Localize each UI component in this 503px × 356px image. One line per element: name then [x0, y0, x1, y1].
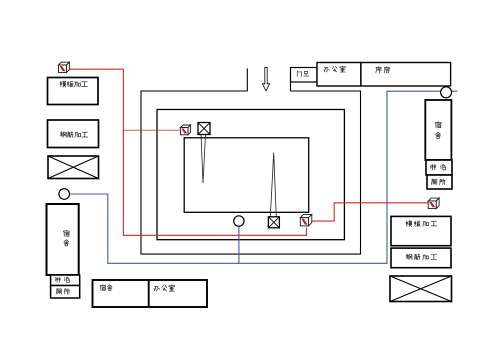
blue water pipe: tap C branch: [238, 226, 240, 263]
middle fence rectangle: [157, 110, 344, 240]
gatehouse wall to boundary: [290, 82, 292, 91]
box: gatehouse (门卫): [291, 68, 318, 83]
label 宿舍 vertical (left): [64, 230, 70, 246]
distribution box DB0 (top-left): [59, 62, 70, 72]
label 办公室 (top): [324, 66, 345, 72]
label 厕所 (left): [56, 289, 70, 294]
outer site boundary wall (gap = gate at top): [141, 68, 361, 254]
box: dormitory tall (left 宿舍): [47, 204, 79, 275]
distribution box DB1 (site, near crane 1): [180, 125, 190, 135]
label 淋浴 (right): [430, 164, 445, 169]
box: dorm/office block (bottom 宿舍/办公室): [93, 280, 208, 307]
water tap C (site circle): [234, 216, 244, 226]
tower crane 1 base symbol: [198, 123, 210, 135]
box: rebar shed (left 钢筋加工): [48, 120, 99, 148]
tower crane 1 mast: [201, 135, 206, 184]
crossed stockyard box (bottom-right): [390, 276, 452, 302]
box: shower (right 淋浴): [426, 160, 452, 175]
label 淋浴 (left): [55, 277, 69, 282]
box: formwork shed (bottom-right 模板加工): [391, 216, 451, 245]
box: shower (left 淋浴): [51, 275, 80, 286]
crossed stockyard box (left): [48, 156, 99, 179]
label 办公室 (bottom block): [154, 285, 174, 291]
blue water pipe: tap A to tap B around site: [70, 91, 441, 263]
red power wire: from DB0 down left side and along bottom to DB2: [69, 69, 307, 235]
label 门卫: [297, 71, 309, 76]
label 宿舍 vertical (right): [435, 122, 441, 139]
box: office (top 办公室): [317, 63, 361, 87]
label 模板加工 (bottom-right): [406, 221, 437, 227]
label 库房: [376, 67, 390, 73]
box: toilet (right 厕所): [427, 175, 452, 189]
box: formwork shed (top-left 模板加工): [48, 78, 99, 105]
tower crane 2 mast: [270, 153, 276, 217]
box: dormitory tall (right 宿舍): [425, 100, 451, 160]
label 钢筋加工 (bottom-right): [406, 254, 437, 260]
blue water pipe stub right of tap B: [452, 90, 458, 92]
divider of dorm/office block: [148, 280, 150, 307]
box: warehouse (库房): [361, 63, 451, 87]
water tap A (left circle): [59, 189, 70, 200]
red power wire: DB2 to DB3: [312, 203, 428, 221]
label 模板加工 (top-left): [60, 81, 87, 87]
distribution box DB3 (bottom-right): [428, 198, 439, 209]
box: toilet (left 厕所): [51, 286, 80, 299]
label 宿舍 (bottom block): [100, 285, 112, 291]
label 厕所 (right): [431, 179, 445, 185]
building outline: [184, 138, 309, 213]
red power wire branch to DB1: [123, 129, 180, 131]
distribution box DB2 (site, near crane 2): [300, 214, 312, 226]
tower crane 2 base symbol: [268, 217, 279, 228]
gate entrance arrow: [262, 67, 269, 91]
label 钢筋加工 (left): [60, 132, 87, 138]
water tap B (top-right circle): [441, 87, 452, 98]
box: rebar shed (bottom-right 钢筋加工): [391, 248, 451, 268]
